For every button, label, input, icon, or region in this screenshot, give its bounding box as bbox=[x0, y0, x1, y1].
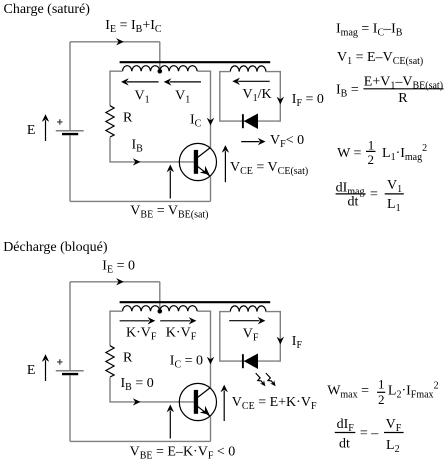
transistor base bar bbox=[194, 150, 198, 174]
wire left vertical to battery bbox=[69, 282, 71, 370]
svg-text:Décharge (bloqué): Décharge (bloqué) bbox=[3, 240, 108, 255]
resistor R bbox=[106, 106, 114, 137]
battery E bottom plate bbox=[62, 373, 78, 375]
svg-text:R: R bbox=[123, 350, 133, 365]
arrow K.VF right (points right) bbox=[160, 320, 190, 322]
arrow VBE up bbox=[169, 171, 171, 199]
junction dot center tap bbox=[158, 309, 163, 314]
wire battery to bottom bbox=[69, 375, 71, 441]
arrow IC on collector wire bbox=[207, 118, 214, 126]
arrow VF secondary (points right) bbox=[229, 320, 259, 322]
arrow VF (points right) bbox=[241, 141, 259, 143]
transistor emitter arrowhead bbox=[200, 166, 210, 175]
svg-text:E: E bbox=[27, 363, 36, 378]
primary winding (center-tapped) bbox=[123, 306, 198, 312]
wire resistor to base bbox=[110, 137, 194, 162]
battery E top plate bbox=[56, 130, 84, 132]
wire emitter vertical bbox=[210, 416, 212, 441]
transistor Q (NPN) circle bbox=[179, 143, 216, 180]
eq bar bbox=[335, 432, 356, 434]
wire top horizontal bbox=[70, 41, 160, 43]
svg-text:VF< 0: VF< 0 bbox=[270, 133, 304, 150]
diode D (cathode bar) bbox=[242, 114, 244, 128]
wire resistor to base bbox=[110, 377, 194, 402]
wire emitter vertical bbox=[210, 176, 212, 201]
svg-text:2: 2 bbox=[378, 392, 385, 407]
wire top horizontal bbox=[70, 281, 160, 283]
wire primary right end / collector vertical bbox=[197, 311, 210, 388]
arrow IF down on right branch bbox=[277, 97, 284, 105]
eq bar bbox=[385, 193, 404, 195]
transformer core bbox=[120, 301, 271, 303]
wire left vertical to battery bbox=[69, 42, 71, 130]
wire center tap vertical bbox=[159, 42, 161, 71]
svg-text:2: 2 bbox=[368, 152, 375, 167]
junction dot center tap bbox=[158, 69, 163, 74]
transistor emitter stroke bbox=[198, 166, 211, 176]
wire secondary loop bbox=[220, 312, 280, 362]
resistor R bbox=[106, 346, 114, 377]
LED light arrow 1 bbox=[256, 373, 263, 383]
transistor collector stroke bbox=[198, 148, 211, 158]
transformer core bbox=[120, 61, 271, 63]
wire battery to bottom bbox=[69, 135, 71, 201]
transistor emitter stroke bbox=[198, 406, 211, 416]
svg-text:R: R bbox=[398, 91, 408, 106]
diode D triangle bbox=[244, 113, 258, 129]
svg-text:= –: = – bbox=[360, 426, 379, 441]
battery E bottom plate bbox=[62, 133, 78, 135]
arrow E up bbox=[45, 120, 47, 141]
wire secondary loop bbox=[220, 72, 280, 122]
arrow E up bbox=[45, 360, 47, 381]
arrow IE on top wire bbox=[116, 38, 124, 45]
arrow IF down on right branch bbox=[277, 337, 284, 345]
svg-text:Charge (saturé): Charge (saturé) bbox=[4, 2, 91, 17]
primary winding (center-tapped) bbox=[123, 66, 198, 72]
wire center tap vertical bbox=[159, 282, 161, 311]
arrow V1/K (points left) bbox=[238, 80, 269, 82]
secondary winding bbox=[230, 306, 266, 312]
wire primary left end to resistor bbox=[110, 311, 123, 346]
eq bar bbox=[384, 432, 404, 434]
transistor base bar bbox=[194, 390, 198, 414]
svg-text:R: R bbox=[123, 110, 133, 125]
LED light arrow 2 bbox=[266, 373, 273, 383]
wire bottom horizontal bbox=[70, 200, 211, 202]
arrow IE on top wire bbox=[116, 278, 124, 285]
arrow VBE up bbox=[169, 411, 171, 439]
arrow VCE up bbox=[224, 151, 226, 182]
transistor collector stroke bbox=[198, 388, 211, 398]
arrow IB on base wire bbox=[133, 158, 141, 165]
wire bottom horizontal bbox=[70, 440, 211, 442]
svg-text:W =: W = bbox=[337, 146, 361, 161]
wire primary right end / collector vertical bbox=[197, 71, 210, 148]
svg-text:IB =: IB = bbox=[336, 82, 359, 99]
svg-text:V1/K: V1/K bbox=[243, 87, 272, 104]
svg-text:dt: dt bbox=[348, 194, 359, 209]
arrow VCE up bbox=[223, 391, 225, 421]
eq fraction bar bbox=[336, 193, 366, 195]
arrow V1 right (points left) bbox=[170, 81, 201, 83]
secondary winding bbox=[230, 66, 266, 72]
transistor Q (NPN) circle bbox=[179, 383, 216, 420]
svg-text:E: E bbox=[27, 123, 36, 138]
svg-text:dt: dt bbox=[339, 437, 350, 452]
battery E top plate bbox=[56, 370, 84, 372]
svg-text:1: 1 bbox=[378, 377, 385, 392]
svg-text:1: 1 bbox=[368, 137, 375, 152]
eq IB fraction bar bbox=[363, 88, 443, 90]
wire primary left end to resistor bbox=[110, 71, 123, 106]
diode D triangle bbox=[244, 353, 258, 369]
transistor emitter arrowhead bbox=[200, 406, 210, 415]
arrow IB on base wire bbox=[133, 398, 141, 405]
arrow K.VF left (points right) bbox=[120, 320, 150, 322]
arrow V1 left (points left) bbox=[127, 81, 159, 83]
svg-text:=: = bbox=[370, 187, 378, 202]
diode D (cathode bar) bbox=[242, 354, 244, 368]
battery + sign bbox=[57, 359, 62, 364]
arrow IC on collector wire bbox=[207, 357, 214, 365]
battery + sign bbox=[57, 119, 62, 124]
